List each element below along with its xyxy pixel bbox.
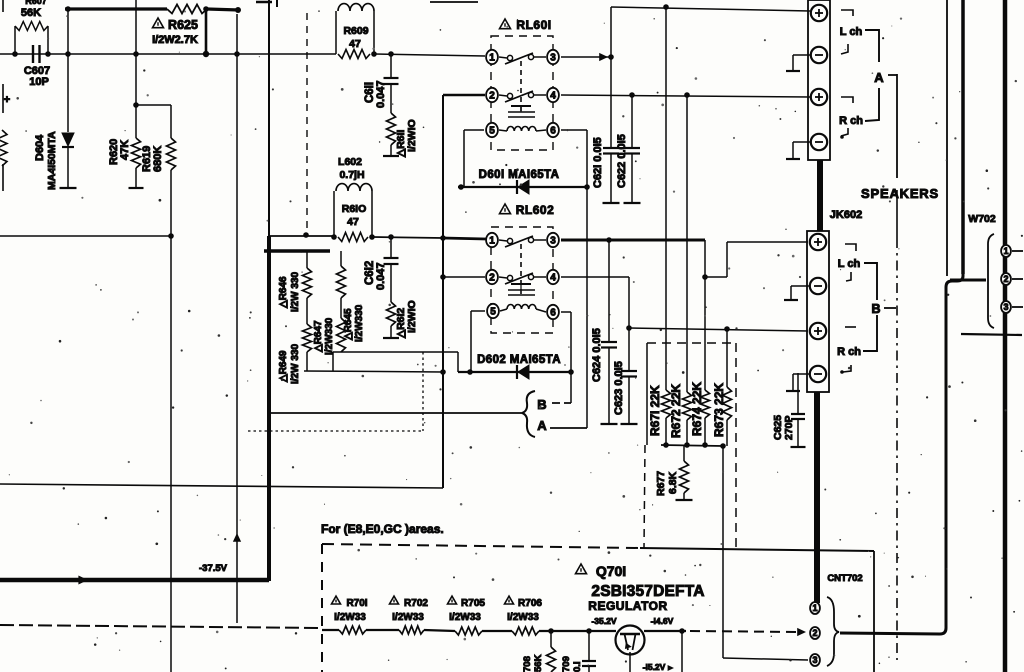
ground R612 [383, 337, 399, 339]
wire pin1 stub [1012, 250, 1023, 252]
svg-text:270P: 270P [783, 415, 795, 440]
wire pin2 left [443, 94, 485, 96]
wire top to jack [611, 7, 810, 11]
svg-text:5: 5 [490, 307, 496, 318]
inductor L601 coil [338, 4, 374, 11]
svg-text:4: 4 [550, 91, 556, 102]
speckle noise [653, 18, 655, 20]
wire pin2 down [442, 95, 444, 488]
brace BA [522, 391, 535, 437]
svg-text:W702: W702 [968, 213, 996, 225]
box E8 left [321, 544, 323, 672]
resistor R671 [662, 390, 671, 418]
resistor R611 [387, 113, 396, 145]
resistor R609 [338, 50, 370, 59]
node rail dots2 [548, 628, 554, 634]
svg-text:RL602: RL602 [516, 203, 555, 217]
linkage RL601 [520, 61, 522, 112]
relay RL601 pin5 [486, 123, 498, 137]
terminal A L+ [811, 5, 827, 21]
wire top tick 1 [256, 1, 272, 4]
diode D604 [62, 133, 74, 146]
resistor R648 [340, 298, 342, 318]
resistor R612 [387, 302, 396, 326]
svg-text:R ch: R ch [839, 115, 863, 127]
svg-text:I/2W33: I/2W33 [334, 612, 366, 623]
wire pin3b right thick [561, 239, 705, 242]
wire A group line [896, 74, 898, 178]
arrow rail [797, 628, 806, 636]
label R625 [153, 18, 164, 28]
capacitor C611 [390, 54, 392, 77]
terminal B R- [810, 366, 826, 382]
wire pin3 right [561, 56, 611, 58]
parallel box R609 [335, 11, 337, 54]
gnd stub A2 [793, 141, 811, 143]
wire top bus [65, 7, 167, 10]
svg-text:47: 47 [349, 38, 361, 50]
resistor R673 [723, 387, 732, 420]
arrow into node [599, 53, 608, 61]
wire R671 feed [665, 7, 667, 390]
wire R674 feed [704, 277, 706, 390]
node rail dots [388, 234, 394, 240]
wire trunk thick [1003, 0, 1008, 672]
terminal A R+ [811, 89, 827, 105]
svg-text:I/2W33: I/2W33 [449, 612, 481, 623]
box E8 top [322, 544, 640, 548]
svg-text:R673 22K: R673 22K [712, 383, 726, 437]
svg-text:L602: L602 [338, 156, 362, 168]
svg-text:R609: R609 [343, 25, 368, 37]
svg-text:Q70I: Q70I [596, 563, 626, 579]
svg-text:0.047: 0.047 [375, 80, 387, 108]
relay RL601 pin1 [486, 50, 498, 64]
wire top tick 2 [430, 1, 478, 3]
svg-text:D604: D604 [34, 134, 46, 161]
svg-text:2: 2 [489, 273, 495, 284]
svg-text:3: 3 [550, 236, 556, 247]
wire rail regulator [322, 629, 339, 631]
node R610 [331, 234, 337, 240]
wire dashed link [306, 13, 308, 235]
svg-text:0.047: 0.047 [375, 262, 387, 290]
ground C625 [791, 446, 806, 448]
svg-text:A: A [874, 70, 884, 85]
svg-text:L ch: L ch [838, 258, 861, 270]
svg-text:2: 2 [812, 628, 817, 638]
relay RL602 pin5 [487, 304, 499, 318]
svg-text:A: A [537, 418, 547, 433]
wire R673 feed [726, 328, 728, 387]
terminal B L- [810, 278, 826, 294]
svg-text:C623 0.0I5: C623 0.0I5 [613, 361, 625, 415]
resistor R647 [306, 298, 308, 324]
contact RL601 a [507, 55, 512, 60]
wire net left [0, 235, 171, 237]
wire RL602 pin2 left [443, 276, 485, 278]
svg-text:R702: R702 [404, 598, 428, 609]
transistor Q701 [616, 626, 645, 655]
relay RL601 box [491, 36, 553, 150]
svg-text:56K: 56K [533, 654, 544, 672]
svg-text:R67I 22K: R67I 22K [648, 385, 662, 436]
svg-text:3: 3 [812, 655, 817, 665]
wire pin6 right [561, 129, 587, 131]
svg-text:R6IO: R6IO [342, 203, 367, 215]
wire pin5 left [464, 129, 484, 131]
svg-text:R ch: R ch [837, 346, 861, 358]
wire right thick a [961, 0, 965, 274]
resistor R610 [338, 233, 368, 242]
svg-text:680K: 680K [152, 146, 164, 172]
svg-text:I/2WIO: I/2WIO [406, 300, 418, 333]
svg-text:R672 22K: R672 22K [669, 384, 683, 438]
svg-text:1: 1 [489, 236, 495, 247]
label R702 [390, 596, 399, 604]
wire -14.6 down [681, 631, 683, 672]
resistor R702 [399, 626, 424, 634]
svg-text:CNT702: CNT702 [827, 573, 862, 584]
svg-text:47K: 47K [119, 140, 131, 160]
svg-text:SPEAKERS: SPEAKERS [861, 186, 939, 201]
terminal A R- [811, 134, 827, 150]
wire bank671 rail [661, 445, 723, 446]
resistor R646 [306, 251, 308, 268]
relay RL601 pin3 [547, 50, 559, 64]
wire pin2 stub [1012, 278, 1023, 280]
svg-text:0.I: 0.I [572, 661, 583, 672]
svg-text:I/2W 330: I/2W 330 [290, 344, 301, 384]
svg-text:B: B [871, 302, 880, 316]
relay RL601 pin4 [547, 88, 559, 102]
wire R625 to main [205, 9, 208, 54]
resistor R645 [340, 251, 342, 266]
resistor R677 [683, 446, 685, 461]
connector W702 bracket [988, 234, 994, 328]
resistor R672 [683, 392, 692, 420]
relay RL602 pin6 [547, 305, 559, 319]
pin CNT702 2 [810, 627, 820, 639]
terminal B L+ [810, 234, 826, 250]
svg-text:C624 0.0I5: C624 0.0I5 [591, 328, 603, 382]
svg-text:I/2W 330: I/2W 330 [290, 272, 301, 312]
wire jog [457, 352, 459, 372]
svg-text:709: 709 [561, 656, 572, 672]
svg-text:6: 6 [550, 308, 556, 319]
resistor R619 [170, 105, 172, 138]
contact RL601 b [507, 93, 512, 98]
capacitor C625 wire [797, 373, 799, 413]
label RL602 [500, 204, 511, 214]
svg-text:I/2W33: I/2W33 [507, 612, 539, 623]
resistor (partial, left edge) [0, 130, 7, 166]
contact RL602 b [507, 275, 512, 280]
svg-text:L ch: L ch [840, 26, 863, 38]
relay coil RL602 [511, 283, 531, 285]
svg-text:6: 6 [550, 126, 556, 137]
box E8 right [873, 551, 875, 672]
linkage RL602 [520, 244, 522, 295]
wire thick speaker link [817, 160, 823, 231]
svg-text:△R646: △R646 [278, 276, 289, 309]
capacitor C709 [588, 631, 590, 660]
label R705 [448, 596, 457, 604]
svg-text:R607: R607 [25, 0, 47, 6]
wire RL602 pin6 right [561, 311, 571, 313]
svg-text:4: 4 [550, 273, 556, 284]
wire dashed rail [0, 625, 322, 628]
ground C623 [621, 423, 638, 425]
svg-text:△R647: △R647 [313, 320, 324, 353]
wire D601 line [458, 186, 587, 188]
capacitor C607 plates [32, 45, 34, 63]
wire pin4 right [561, 95, 810, 97]
jack JK602 upper body [808, 0, 830, 160]
svg-text:C62I 0.0I5: C62I 0.0I5 [592, 137, 604, 188]
svg-text:-I5.2V: -I5.2V [643, 662, 666, 672]
wire D602 line [458, 371, 571, 373]
svg-text:I/2W330: I/2W330 [354, 304, 365, 342]
svg-text:708: 708 [522, 656, 533, 672]
ground C624 [601, 423, 618, 425]
wire main line [0, 53, 336, 55]
svg-text:+: + [4, 94, 10, 106]
svg-text:R70I: R70I [346, 598, 367, 609]
box R671 group [646, 343, 648, 445]
svg-text:D60I MAI65TA: D60I MAI65TA [479, 169, 560, 181]
wire bank rail [304, 371, 443, 372]
relay RL602 pin3 [547, 233, 559, 247]
svg-text:2: 2 [489, 91, 495, 102]
svg-text:JK602: JK602 [830, 209, 862, 221]
wire right elbow [840, 274, 963, 634]
wire B group line [896, 190, 898, 238]
svg-text:56K: 56K [21, 7, 41, 19]
parallel box R610 [333, 191, 335, 237]
wire pin3 stub [1012, 306, 1023, 308]
bracket Lch B [845, 244, 856, 251]
svg-text:△R649: △R649 [278, 350, 289, 383]
wire A stub [550, 427, 587, 429]
label Q701 [576, 564, 587, 574]
svg-text:47: 47 [347, 216, 359, 228]
bracket group A [865, 30, 879, 62]
svg-text:2: 2 [1003, 274, 1008, 284]
svg-text:-35.2V: -35.2V [591, 616, 616, 626]
capacitor C612 [390, 237, 392, 257]
svg-text:REGULATOR: REGULATOR [588, 599, 667, 613]
wire A vertical [586, 188, 588, 428]
pin W702 1 [1001, 245, 1011, 257]
resistor R705 [455, 627, 482, 635]
wire brace stem [269, 412, 521, 414]
wire thick rail [0, 578, 269, 583]
resistor R701 [339, 626, 366, 634]
resistor R708 [550, 631, 552, 647]
svg-text:D602 MAI65TA: D602 MAI65TA [477, 354, 561, 366]
svg-text:I/2WIO: I/2WIO [406, 119, 418, 152]
relay RL602 box [491, 227, 553, 333]
relay RL602 pin2 [486, 270, 498, 284]
wire left edge stub [2, 0, 4, 12]
arrow right on rail [78, 576, 88, 585]
diode D602 [516, 365, 518, 379]
svg-text:C622 0.0I5: C622 0.0I5 [616, 134, 628, 188]
svg-text:1: 1 [1003, 246, 1008, 256]
svg-text:1: 1 [812, 603, 817, 613]
bracket group B [864, 263, 877, 300]
svg-text:I/2W2.7K: I/2W2.7K [152, 34, 198, 46]
svg-text:-I4.6V: -I4.6V [651, 616, 674, 626]
wire -37.5V line [236, 14, 238, 623]
arrow up [233, 533, 241, 542]
resistor R620 [135, 0, 137, 138]
label RL601 [500, 19, 511, 29]
bracket Rch B [845, 326, 856, 328]
relay RL601 pin2 [486, 88, 498, 102]
svg-text:0.7jH: 0.7jH [339, 169, 364, 181]
svg-text:For (E8,E0,GC )areas.: For (E8,E0,GC )areas. [321, 522, 444, 536]
svg-text:1: 1 [489, 53, 495, 64]
capacitor C622 [631, 95, 633, 147]
ground R677 [676, 499, 693, 501]
pin W702 3 [1001, 301, 1011, 313]
gnd stub B1 [791, 285, 810, 287]
svg-text:10P: 10P [29, 76, 49, 88]
wire pin4b right [561, 276, 629, 278]
ground C622 [624, 202, 641, 204]
wire B dash [884, 307, 896, 309]
relay coil RL601 [511, 105, 531, 107]
relay RL601 pin6 [547, 123, 559, 137]
inductor L602 coil [336, 184, 372, 191]
wire net left out [0, 484, 443, 488]
svg-text:MA4I50MTA: MA4I50MTA [46, 131, 58, 190]
wire bank bar [264, 249, 330, 252]
svg-text:2SBI357DEFTA: 2SBI357DEFTA [591, 583, 704, 600]
jack JK602 lower body [807, 231, 829, 392]
svg-text:R706: R706 [518, 598, 542, 609]
svg-text:RL60I: RL60I [516, 18, 551, 32]
label R701 [332, 596, 341, 604]
node main-line left [12, 51, 18, 57]
resistor R674 [701, 390, 710, 418]
resistor R706 [512, 627, 539, 635]
wire R620-R619 jog [136, 104, 171, 106]
wire jog 705 [704, 240, 706, 277]
resistor 56K parallel top branch [14, 26, 16, 54]
wire RL602 pin5 left [471, 310, 485, 312]
wire R619 down [170, 170, 172, 672]
wire to CNT pin3 [722, 446, 724, 658]
wire elbow to bracket [950, 279, 986, 282]
wire D604 branch [67, 9, 69, 132]
svg-text:R705: R705 [461, 598, 485, 609]
wire up to top [610, 7, 612, 57]
wire B stub [570, 372, 572, 403]
svg-text:6.8K: 6.8K [667, 471, 679, 494]
wire dotted link [422, 352, 424, 431]
relay RL602 pin4 [547, 270, 559, 284]
gnd stub A1 [793, 54, 811, 56]
node R609 right [371, 51, 377, 57]
pin CNT702 1 [810, 602, 820, 614]
label R706 [505, 596, 514, 604]
svg-text:R625: R625 [168, 18, 198, 32]
diode D601 [516, 180, 518, 194]
ground D604 [60, 187, 77, 189]
pin W702 2 [1001, 273, 1011, 285]
contact RL602 a [507, 238, 512, 243]
pin CNT702 3 [810, 654, 820, 666]
resistor R625 [167, 5, 207, 14]
svg-text:-37.5V: -37.5V [199, 563, 228, 574]
wire thick speaker link 2 [814, 392, 820, 603]
terminal B R+ [810, 323, 826, 339]
wire R672 feed [686, 95, 688, 392]
bracket Lch A [841, 10, 853, 16]
capacitor C624 [608, 240, 610, 341]
relay RL602 pin1 [486, 233, 498, 247]
capacitor C621 [610, 57, 612, 147]
svg-text:3: 3 [1003, 302, 1008, 312]
capacitor C623 [628, 328, 630, 370]
gnd stub B2 [793, 373, 810, 375]
wire main to RL601 [374, 54, 485, 56]
ground R620 [129, 187, 144, 189]
bracket Rch A [841, 97, 853, 103]
wire net 328 [629, 328, 808, 331]
svg-text:5: 5 [489, 126, 495, 137]
connector CNT702 brace [827, 597, 839, 666]
ground R611 [383, 155, 399, 157]
terminal A L- [811, 47, 827, 63]
svg-text:B: B [537, 397, 546, 412]
ground C621 [603, 202, 620, 204]
wire rail 237 [269, 235, 334, 237]
wire right thin [946, 0, 948, 276]
svg-text:△R645: △R645 [343, 308, 354, 341]
wire rail dashes to CNT [690, 631, 800, 632]
wire thick vertical [267, 236, 271, 581]
svg-text:I/2W33: I/2W33 [392, 612, 424, 623]
wire A dash [888, 74, 897, 76]
svg-text:R677: R677 [655, 471, 667, 496]
wire stub 335 [961, 334, 1022, 335]
svg-text:R674 22K: R674 22K [690, 382, 704, 436]
svg-text:I/2W330: I/2W330 [324, 317, 335, 355]
svg-text:3: 3 [550, 53, 556, 64]
